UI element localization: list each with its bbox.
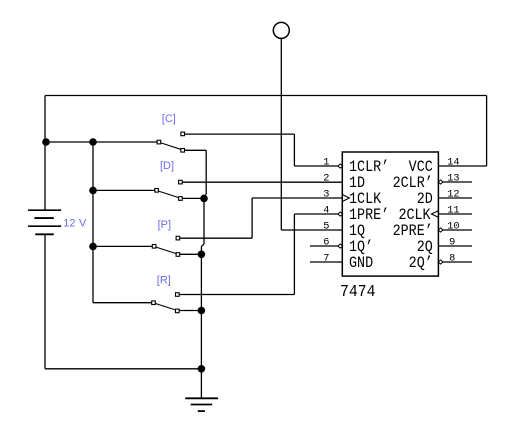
svg-text:[P]: [P] <box>158 219 171 231</box>
svg-text:1CLK: 1CLK <box>349 191 381 208</box>
svg-text:7: 7 <box>323 253 329 265</box>
switch [P] lever <box>156 247 176 253</box>
wire pin 11 stub <box>438 213 472 215</box>
IC U1 7474 body <box>342 152 438 276</box>
junction bus / C row <box>89 138 97 146</box>
wire switch C bottom throw to right bus <box>184 149 206 151</box>
svg-text:1Q: 1Q <box>349 223 365 240</box>
wire riser down to pin 1 row <box>293 134 295 166</box>
svg-text:VCC: VCC <box>409 159 433 176</box>
wire bus to switch D common <box>93 189 155 191</box>
svg-text:8: 8 <box>449 253 455 265</box>
svg-text:12: 12 <box>447 189 459 201</box>
svg-text:2CLR’: 2CLR’ <box>393 175 433 192</box>
junction ground node <box>198 365 206 373</box>
pin 4 polarity diamond <box>338 212 343 216</box>
wire right bus mid segment <box>203 197 205 245</box>
junction P bottom throw / right bus <box>198 251 206 259</box>
svg-text:11: 11 <box>447 205 459 217</box>
junction bus / D row <box>89 187 97 195</box>
wire switch P bottom throw to right bus <box>180 253 202 255</box>
wire VCC riser right <box>486 96 488 167</box>
wire switch P top throw run <box>180 237 253 239</box>
wire switch D top throw to pin 2 1D <box>183 181 343 183</box>
svg-text:1PRE’: 1PRE’ <box>349 207 389 224</box>
wire battery negative down <box>44 234 46 368</box>
svg-text:2D: 2D <box>417 191 433 208</box>
wire pin 9 stub <box>438 245 472 247</box>
pin 11 clock arrow <box>431 211 438 217</box>
junction battery riser / C row <box>42 138 50 146</box>
switch [D] top throw contact <box>179 180 183 184</box>
junction R bottom throw / right bus <box>198 307 206 315</box>
svg-text:1D: 1D <box>349 175 365 192</box>
svg-text:6: 6 <box>323 237 329 249</box>
wire right bus jog 1 <box>204 194 206 197</box>
svg-text:GND: GND <box>349 255 373 272</box>
svg-text:4: 4 <box>323 205 329 217</box>
svg-text:3: 3 <box>323 189 329 201</box>
pin 3 clock arrow <box>342 195 349 202</box>
pin 13 polarity diamond <box>438 180 443 184</box>
wire pin 5 1Q output <box>281 229 342 231</box>
svg-text:2CLK: 2CLK <box>398 207 430 224</box>
svg-text:13: 13 <box>447 173 459 185</box>
svg-text:2Q’: 2Q’ <box>409 255 433 272</box>
pin 6 polarity diamond <box>338 244 343 248</box>
wire pin 6 stub <box>310 245 339 247</box>
svg-text:1CLR’: 1CLR’ <box>349 159 389 176</box>
junction bus / P row <box>89 243 97 251</box>
wire ground stem <box>200 369 202 398</box>
wire pin 7 stub <box>310 261 342 263</box>
svg-text:2Q: 2Q <box>417 239 433 256</box>
switch [D] bottom throw contact <box>179 197 183 201</box>
junction D bottom throw / right bus <box>200 195 208 203</box>
switch [R] top throw contact <box>176 293 180 297</box>
wire pin 10 stub <box>443 229 472 231</box>
wire left switch bus vertical <box>92 142 94 303</box>
switch [D] common contact <box>155 189 159 193</box>
ground <box>185 397 218 399</box>
pin 10 polarity diamond <box>438 228 443 232</box>
wire riser up to pin 3 row <box>251 198 253 238</box>
battery V1 12V <box>28 209 61 211</box>
wire top power rail <box>45 95 487 97</box>
switch [R] lever <box>156 304 176 310</box>
wire battery to switch C common <box>45 141 157 143</box>
switch [P] bottom throw contact <box>176 253 180 257</box>
wire to pin 1 1CLR <box>294 165 339 167</box>
switch [P] common contact <box>152 245 156 249</box>
wire battery positive riser <box>44 96 46 211</box>
switch [C] lever <box>161 143 181 149</box>
switch [C] bottom throw contact <box>181 149 185 153</box>
wire switch D bottom throw to right bus <box>183 197 205 199</box>
svg-text:2PRE’: 2PRE’ <box>393 223 433 240</box>
wire bus to switch P common <box>93 245 152 247</box>
svg-text:9: 9 <box>449 237 455 249</box>
wire right bus jog 2 <box>201 244 204 247</box>
svg-text:[R]: [R] <box>157 274 171 286</box>
svg-text:14: 14 <box>447 157 459 169</box>
wire to pin 4 1PRE <box>294 213 339 215</box>
svg-text:[D]: [D] <box>160 160 174 172</box>
wire to pin 3 1CLK <box>252 197 342 199</box>
svg-text:[C]: [C] <box>162 113 176 125</box>
switch [P] top throw contact <box>176 236 180 240</box>
wire right bus lower segment <box>200 247 202 369</box>
wire switch C top throw run <box>184 133 294 135</box>
wire pin 12 stub <box>438 197 472 199</box>
switch [C] common contact <box>157 140 161 144</box>
pin 8 polarity diamond <box>438 260 443 264</box>
wire right bus upper segment <box>205 150 207 194</box>
svg-text:7474: 7474 <box>340 282 376 301</box>
wire bus corner to switch R common <box>93 302 152 304</box>
switch [D] lever <box>159 191 179 197</box>
wire switch R bottom throw to right bus <box>179 310 202 312</box>
switch [R] common contact <box>152 301 156 305</box>
wire riser up to pin 4 row <box>293 214 295 295</box>
svg-text:1Q’: 1Q’ <box>349 239 373 256</box>
wire pin 8 stub <box>443 261 472 263</box>
wire probe riser <box>280 39 282 230</box>
wire pin 13 stub <box>443 181 472 183</box>
svg-text:12 V: 12 V <box>63 218 87 230</box>
switch [R] bottom throw contact <box>176 309 180 313</box>
svg-text:1: 1 <box>323 157 329 169</box>
wire pin 14 stub <box>438 165 486 167</box>
wire bottom ground run <box>45 368 201 370</box>
svg-text:2: 2 <box>323 173 329 185</box>
svg-text:5: 5 <box>323 221 329 233</box>
pin 1 polarity diamond <box>338 164 343 168</box>
svg-text:10: 10 <box>447 221 459 233</box>
switch [C] top throw contact <box>181 132 185 136</box>
wire switch R top throw run <box>179 294 295 296</box>
probe terminal circle <box>273 22 289 38</box>
